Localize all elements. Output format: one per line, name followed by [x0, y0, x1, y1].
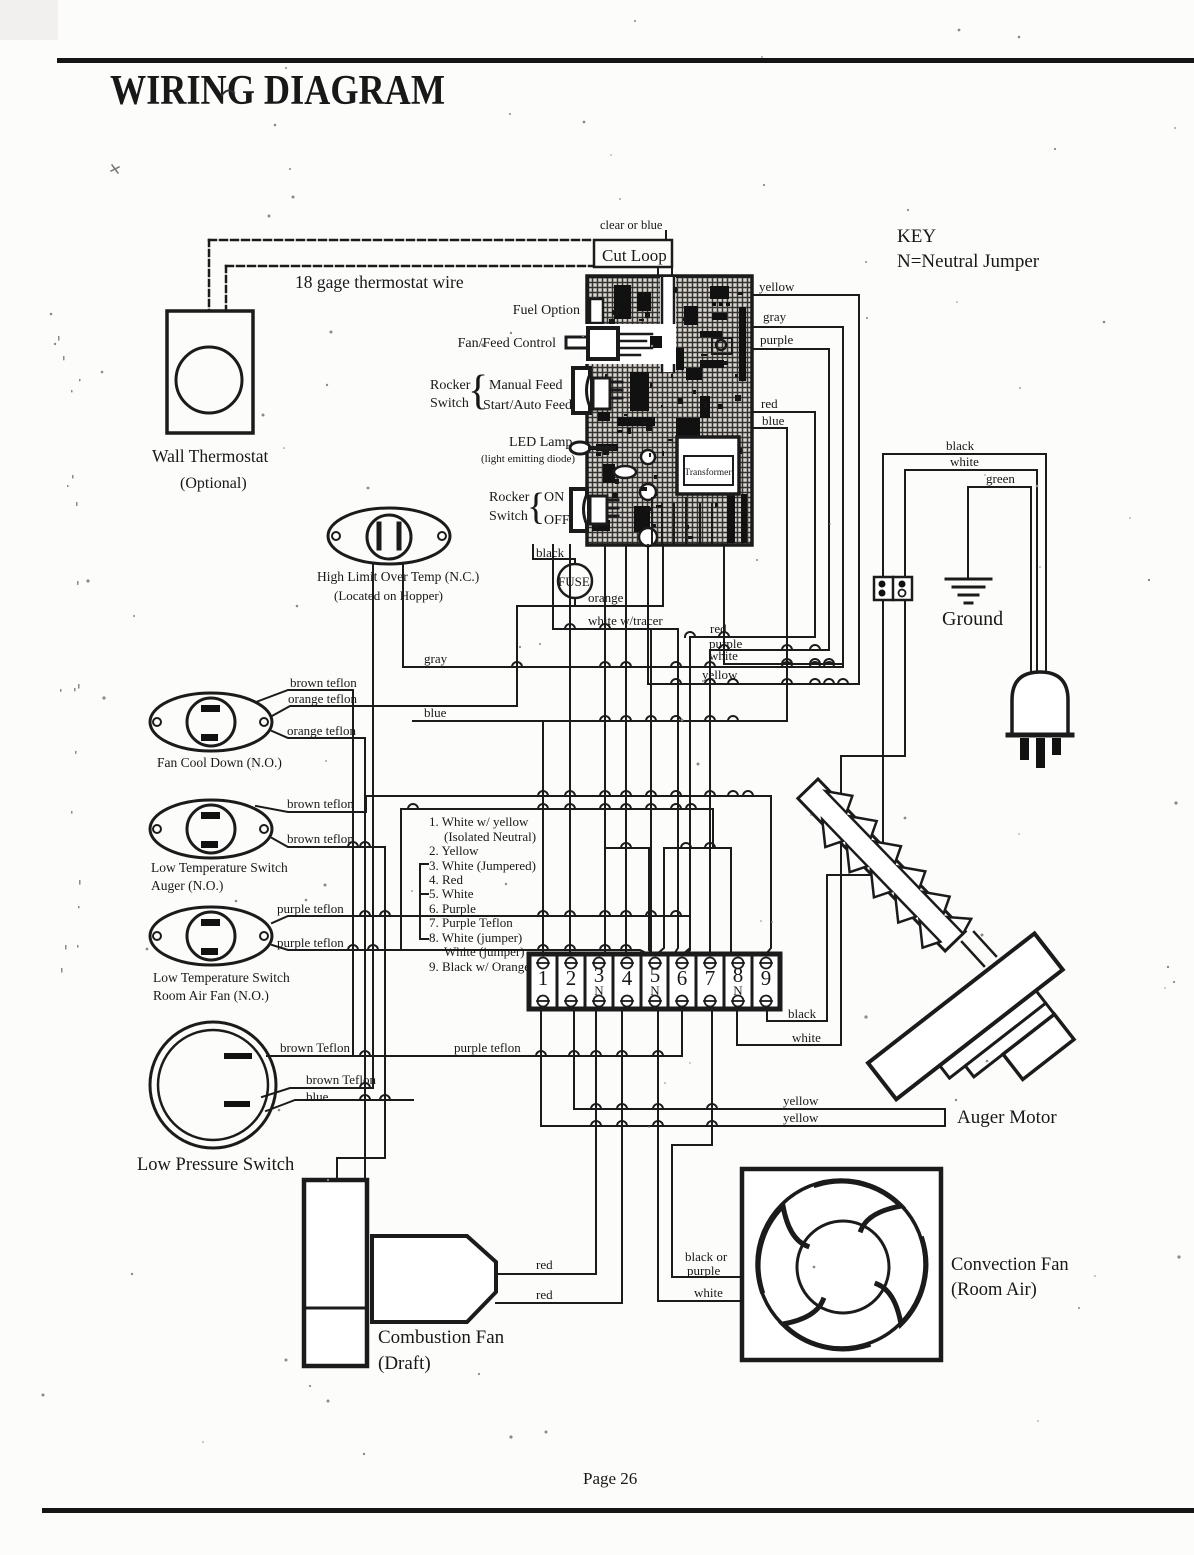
svg-text:gray: gray: [763, 309, 787, 324]
svg-text:Transformer: Transformer: [684, 467, 732, 478]
wire blue bus: [413, 428, 787, 954]
wire brown teflon fan cool down: [256, 690, 353, 1056]
svg-text:WIRING DIAGRAM: WIRING DIAGRAM: [110, 68, 445, 114]
svg-text:Fan/Feed Control: Fan/Feed Control: [458, 336, 556, 351]
svg-text:N: N: [733, 983, 743, 998]
wire black-or-purple to convection fan: [672, 1009, 742, 1277]
svg-text:brown teflon: brown teflon: [287, 796, 354, 811]
svg-text:white: white: [694, 1285, 723, 1300]
wire black power cord: [883, 454, 1046, 672]
high limit over temp switch S4: [328, 508, 450, 564]
rocker switch S2 manual/auto: [573, 368, 590, 413]
wire blue low pressure: [266, 1100, 413, 1111]
svg-text:Auger (N.O.): Auger (N.O.): [151, 878, 223, 893]
svg-text:purple teflon: purple teflon: [454, 1040, 521, 1055]
svg-text:Rocker: Rocker: [430, 378, 471, 393]
svg-text:brown teflon: brown teflon: [287, 831, 354, 846]
svg-text:yellow: yellow: [783, 1110, 819, 1125]
svg-text:black: black: [788, 1006, 817, 1021]
control board U1: [587, 276, 752, 545]
svg-text:(Draft): (Draft): [378, 1353, 431, 1374]
svg-text:{: {: [527, 486, 545, 528]
wire yellow auger 2: [541, 1009, 945, 1126]
svg-text:(Room Air): (Room Air): [951, 1280, 1037, 1300]
svg-text:7. Purple Teflon: 7. Purple Teflon: [429, 915, 513, 930]
svg-text:9. Black w/ Orange: 9. Black w/ Orange: [429, 959, 530, 974]
wire red bus: [687, 412, 815, 954]
terminal screws bottom: [537, 996, 772, 1007]
svg-text:(light emitting diode): (light emitting diode): [481, 453, 575, 465]
wire black board to fuse: [533, 545, 575, 563]
terminal numbers: [538, 963, 772, 990]
svg-text:Rocker: Rocker: [489, 490, 530, 505]
svg-text:5. White: 5. White: [429, 886, 474, 901]
svg-text:4: 4: [622, 966, 633, 990]
low temperature switch room air fan S7: [150, 907, 272, 965]
board component blobs: [592, 285, 747, 543]
svg-text:Room Air Fan (N.O.): Room Air Fan (N.O.): [153, 988, 269, 1003]
hop bumps: [348, 624, 848, 1126]
wire gray bus: [403, 327, 843, 954]
wire red to combustion fan 1: [496, 1009, 596, 1274]
wire t3 t4 long verticals: [605, 545, 626, 954]
svg-text:Switch: Switch: [430, 396, 469, 411]
svg-text:Ground: Ground: [942, 608, 1003, 630]
svg-text:18 gage thermostat wire: 18 gage thermostat wire: [295, 272, 464, 292]
svg-text:White (jumper): White (jumper): [444, 944, 525, 959]
plug prong middle: [1036, 738, 1045, 768]
wire brown Teflon low pressure 2: [262, 1088, 373, 1097]
legend list: [429, 814, 536, 974]
svg-text:High Limit Over Temp (N.C.): High Limit Over Temp (N.C.): [317, 569, 479, 584]
wire brown Teflon / purple teflon bus low pressure: [267, 1009, 682, 1056]
wire black below connector to terminal 9: [767, 600, 883, 1021]
board cut-loop trace channel: [660, 277, 676, 372]
svg-text:(Isolated Neutral): (Isolated Neutral): [444, 829, 536, 844]
svg-text:LED Lamp: LED Lamp: [509, 435, 572, 450]
svg-text:7: 7: [705, 966, 716, 990]
fan/feed control toggle switch S1: [583, 324, 676, 364]
svg-text:brown Teflon: brown Teflon: [280, 1040, 350, 1055]
wire brown teflon auger upper: [256, 796, 771, 954]
fuse F1: [558, 564, 592, 598]
top rule: [57, 58, 1194, 63]
svg-text:Manual Feed: Manual Feed: [489, 378, 562, 393]
svg-text:blue: blue: [306, 1089, 329, 1104]
low temperature switch auger S6: [150, 800, 272, 858]
low pressure switch S8: [150, 1022, 276, 1148]
board top-left module: [588, 277, 661, 325]
svg-text:purple teflon: purple teflon: [277, 935, 344, 950]
svg-text:Combustion Fan: Combustion Fan: [378, 1327, 505, 1348]
wire white below connector to terminal 8: [737, 600, 905, 1045]
cut loop: [665, 231, 667, 240]
auger shaft: [962, 932, 996, 966]
svg-text:red: red: [761, 396, 778, 411]
wire white power cord: [905, 470, 1037, 672]
scan smudge top-left: [0, 0, 58, 40]
ground symbol: [946, 579, 991, 603]
LED lamp D1: [570, 442, 590, 454]
wire yellow bus: [648, 295, 859, 684]
wire green power cord: [968, 487, 1031, 672]
plug prong left: [1020, 738, 1029, 760]
combustion fan B2: [372, 1236, 496, 1322]
svg-text:ON: ON: [544, 490, 564, 505]
svg-text:red: red: [536, 1287, 553, 1302]
auger screw: [788, 770, 975, 961]
board small parts: [716, 340, 726, 350]
transformer T1: [677, 437, 739, 494]
svg-text:red: red: [536, 1257, 553, 1272]
svg-text:green: green: [986, 471, 1015, 486]
svg-text:8. White (jumper): 8. White (jumper): [429, 930, 522, 945]
wire tee t3-t5: [605, 848, 653, 954]
svg-text:Wall Thermostat: Wall Thermostat: [152, 446, 269, 466]
wire white to convection fan: [658, 1009, 742, 1301]
svg-text:2: 2: [566, 966, 577, 990]
svg-text:Fuel Option: Fuel Option: [513, 303, 580, 318]
svg-text:orange teflon: orange teflon: [288, 691, 357, 706]
wire orange teflon upper: [272, 706, 517, 716]
board bottom traces: [652, 498, 712, 543]
wire purple teflon room fan upper: [272, 916, 690, 954]
svg-text:FUSE: FUSE: [558, 574, 590, 589]
svg-text:black or: black or: [685, 1249, 728, 1264]
wire dashed drop left: [208, 240, 211, 311]
fuel option connector: [590, 299, 603, 323]
connector block J1: [874, 577, 912, 600]
svg-text:yellow: yellow: [759, 279, 795, 294]
svg-text:Convection Fan: Convection Fan: [951, 1255, 1069, 1275]
svg-text:Low Temperature Switch: Low Temperature Switch: [153, 970, 290, 985]
wire 18 gage thermostat dashed run upper: [209, 239, 592, 242]
svg-text:Switch: Switch: [489, 509, 528, 524]
wire 18 gage thermostat dashed run lower: [226, 265, 592, 268]
rocker switch S3 on/off: [571, 489, 587, 531]
auger motor M1: [868, 933, 1101, 1148]
svg-text:Low Pressure Switch: Low Pressure Switch: [137, 1155, 294, 1175]
svg-text:KEY: KEY: [897, 226, 936, 247]
plug prong right: [1052, 738, 1061, 755]
combustion fan housing: [304, 1180, 367, 1366]
svg-text:brown teflon: brown teflon: [290, 675, 357, 690]
svg-text:Low Temperature Switch: Low Temperature Switch: [151, 860, 288, 875]
svg-text:N: N: [650, 983, 660, 998]
svg-text:blue: blue: [762, 413, 785, 428]
svg-text:purple: purple: [760, 332, 793, 347]
wire orange bus: [517, 545, 663, 706]
svg-text:white: white: [950, 454, 979, 469]
svg-text:1. White w/ yellow: 1. White w/ yellow: [429, 814, 529, 829]
svg-text:Fan Cool Down (N.O.): Fan Cool Down (N.O.): [157, 755, 282, 770]
wire purple teflon room fan lower: [272, 945, 648, 954]
svg-text:white: white: [792, 1030, 821, 1045]
svg-text:OFF: OFF: [544, 513, 570, 528]
svg-text:2. Yellow: 2. Yellow: [429, 843, 479, 858]
svg-text:6: 6: [677, 966, 688, 990]
wire brown teflon auger lower: [272, 838, 385, 1180]
svg-text:Cut Loop: Cut Loop: [602, 246, 667, 265]
svg-text:1: 1: [538, 966, 549, 990]
svg-text:N=Neutral Jumper: N=Neutral Jumper: [897, 251, 1040, 272]
legend bracket: [420, 864, 428, 939]
terminal block TB1: [529, 954, 780, 1009]
svg-text:clear or blue: clear or blue: [600, 218, 663, 232]
svg-text:orange teflon: orange teflon: [287, 723, 356, 738]
bottom rule: [42, 1508, 1194, 1513]
svg-text:Page 26: Page 26: [583, 1469, 637, 1488]
svg-text:4. Red: 4. Red: [429, 872, 463, 887]
svg-text:(Located on Hopper): (Located on Hopper): [334, 588, 443, 603]
wire white bus: [724, 545, 841, 664]
wire high limit drops: [373, 563, 403, 1088]
wire white w/tracer bus: [553, 545, 678, 954]
svg-text:N: N: [594, 983, 604, 998]
wire dashed drop right: [225, 266, 228, 311]
svg-text:brown Teflon: brown Teflon: [306, 1072, 376, 1087]
wire orange teflon lower: [272, 731, 365, 1180]
wire purple bus: [710, 349, 829, 954]
fan cool down switch S5: [150, 693, 272, 751]
svg-text:yellow: yellow: [783, 1093, 819, 1108]
svg-text:3. White (Jumpered): 3. White (Jumpered): [429, 858, 536, 873]
power plug P1: [1012, 672, 1068, 735]
svg-text:black: black: [536, 545, 565, 560]
wire bus mid: [401, 809, 731, 954]
svg-text:Auger Motor: Auger Motor: [957, 1107, 1057, 1128]
svg-text:purple teflon: purple teflon: [277, 901, 344, 916]
svg-text:gray: gray: [424, 651, 448, 666]
wire yellow auger 1: [574, 1009, 945, 1126]
svg-text:(Optional): (Optional): [180, 475, 247, 492]
wire cut loop to board: [658, 267, 672, 277]
svg-text:purple: purple: [687, 1263, 720, 1278]
convection fan B1: [742, 1169, 941, 1360]
svg-text:black: black: [946, 438, 975, 453]
wall thermostat: [167, 311, 253, 433]
svg-text:Start/Auto Feed: Start/Auto Feed: [483, 398, 572, 413]
svg-text:blue: blue: [424, 705, 447, 720]
wire red to combustion fan 2: [496, 1009, 622, 1303]
svg-text:white: white: [709, 648, 738, 663]
svg-text:9: 9: [761, 966, 772, 990]
svg-text:6. Purple: 6. Purple: [429, 901, 476, 916]
terminal screws top: [537, 958, 772, 969]
